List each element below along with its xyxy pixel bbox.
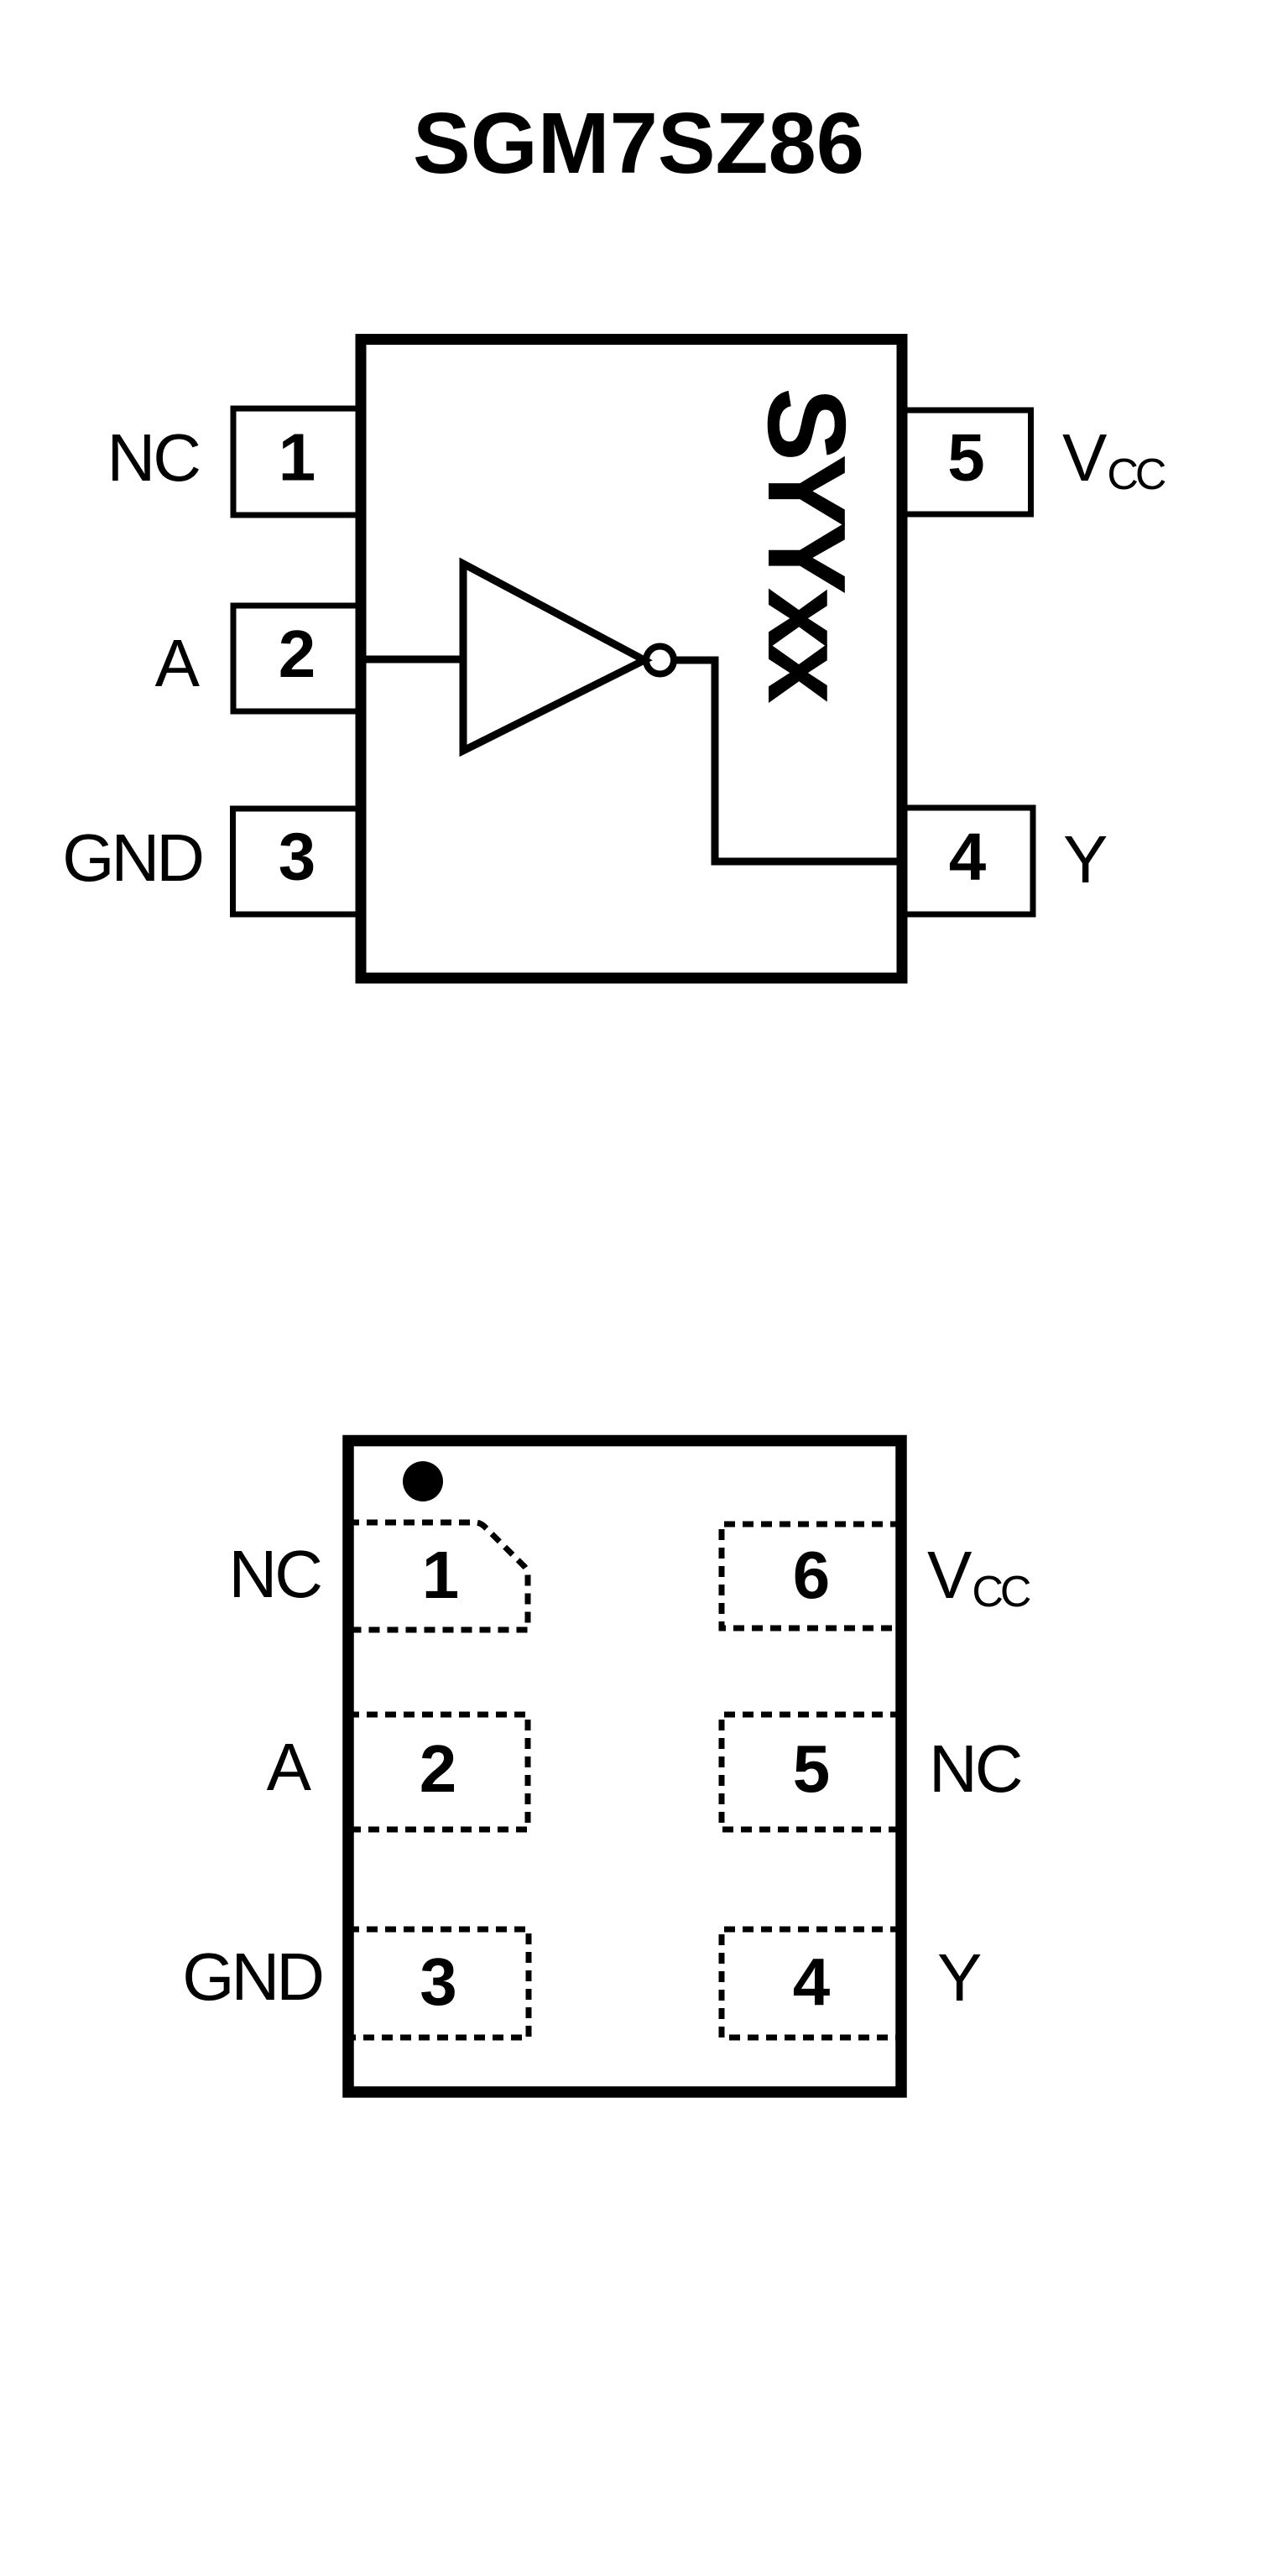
inverter bubble <box>646 647 674 674</box>
svg-text:1: 1 <box>422 1538 460 1612</box>
IC body U1 (SOT-23-5 logic diagram) <box>361 340 902 979</box>
svg-text:GND: GND <box>62 820 201 895</box>
IC body U2 (DFN top view) <box>348 1441 901 2093</box>
svg-text:NC: NC <box>107 420 199 495</box>
svg-text:Y: Y <box>937 1940 982 2015</box>
pad 3 (dashed) <box>348 1929 529 2037</box>
svg-text:2: 2 <box>279 617 316 691</box>
pin 5 box <box>902 410 1031 514</box>
svg-text:5: 5 <box>793 1731 831 1806</box>
svg-text:3: 3 <box>420 1944 457 2019</box>
svg-text:4: 4 <box>949 820 987 894</box>
svg-text:4: 4 <box>793 1944 831 2019</box>
svg-text:3: 3 <box>279 820 316 894</box>
svg-text:GND: GND <box>182 1939 321 2014</box>
svg-text:2: 2 <box>420 1731 457 1806</box>
svg-text:SYYxx: SYYxx <box>745 388 868 704</box>
pad 1 (dashed, chamfered) <box>348 1522 528 1630</box>
wire: pin 2 to inverter input <box>361 656 463 664</box>
svg-text:6: 6 <box>793 1538 831 1612</box>
pin 1 index dot <box>403 1461 443 1501</box>
svg-text:A: A <box>267 1730 312 1804</box>
inverter U1 triangle <box>463 564 644 751</box>
svg-text:5: 5 <box>947 420 985 495</box>
pad 2 (dashed) <box>348 1715 528 1829</box>
svg-text:A: A <box>155 626 201 700</box>
pad 5 (dashed) <box>722 1715 901 1829</box>
pin 1 box <box>233 409 361 515</box>
wire: inverter output to pin 4 <box>674 660 902 861</box>
pin 4 box <box>902 808 1033 914</box>
svg-text:SGM7SZ86: SGM7SZ86 <box>413 95 864 191</box>
pin 3 box <box>233 809 362 914</box>
svg-text:Y: Y <box>1063 822 1108 897</box>
pin 2 box <box>233 606 361 711</box>
pad 6 (dashed) <box>722 1524 901 1628</box>
svg-text:1: 1 <box>279 420 316 495</box>
svg-text:VCC: VCC <box>927 1538 1030 1616</box>
svg-text:VCC: VCC <box>1062 420 1165 499</box>
pad 4 (dashed) <box>722 1929 901 2037</box>
svg-text:NC: NC <box>228 1537 321 1611</box>
svg-text:NC: NC <box>929 1731 1021 1806</box>
